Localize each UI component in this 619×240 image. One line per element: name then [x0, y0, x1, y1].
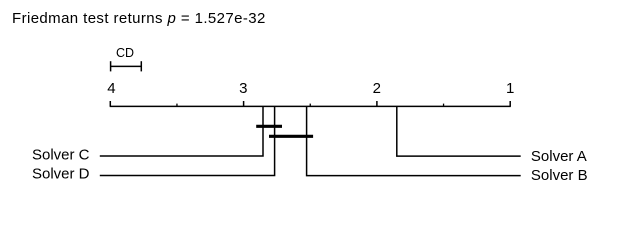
svg-text:3: 3	[239, 80, 247, 97]
major tick 2	[376, 101, 378, 106]
svg-text:2: 2	[373, 80, 381, 97]
major tick 4	[109, 101, 111, 106]
drop line Solver A	[397, 106, 521, 156]
drop line Solver D	[100, 106, 275, 175]
drop line Solver C	[100, 106, 263, 156]
major tick 3	[243, 101, 245, 106]
svg-text:4: 4	[107, 80, 115, 97]
CD interval bar	[111, 61, 142, 71]
minor tick 1.5	[443, 104, 445, 107]
major tick 1	[509, 101, 511, 106]
axis line	[110, 105, 511, 107]
svg-text:Solver D: Solver D	[32, 166, 90, 183]
svg-text:1: 1	[506, 80, 514, 97]
svg-text:CD: CD	[116, 46, 134, 60]
svg-text:Solver A: Solver A	[531, 148, 587, 165]
clique bar D-B	[269, 135, 313, 138]
minor tick 3.5	[176, 104, 178, 107]
drop line Solver B	[307, 106, 521, 175]
svg-text:Friedman test returns p = 1.52: Friedman test returns p = 1.527e-32	[12, 10, 266, 27]
minor tick 2.5	[309, 104, 311, 107]
svg-text:Solver C: Solver C	[32, 146, 90, 163]
clique bar C-D	[256, 125, 282, 128]
svg-text:Solver B: Solver B	[531, 167, 588, 184]
